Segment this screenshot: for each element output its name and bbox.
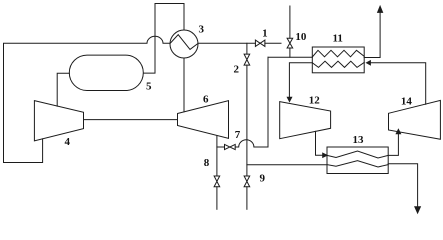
svg-text:6: 6 bbox=[203, 94, 209, 106]
svg-text:5: 5 bbox=[146, 80, 152, 92]
valve 10 bbox=[287, 38, 293, 48]
wire: circle 3 bottom to turbine 6 inlet bbox=[183, 58, 185, 112]
turbine 12 bbox=[280, 102, 331, 139]
svg-text:12: 12 bbox=[309, 94, 321, 106]
heat exchanger 13 bbox=[327, 147, 388, 174]
arrow into HX 13 bbox=[323, 153, 328, 157]
svg-text:1: 1 bbox=[262, 28, 268, 40]
tank 5 bbox=[69, 55, 143, 90]
svg-text:4: 4 bbox=[65, 136, 71, 148]
valve 9 bbox=[244, 176, 250, 187]
wire: branch to valve 7 bbox=[217, 146, 225, 148]
wire: HX 11 upper outlet to exhaust stack bbox=[364, 13, 380, 58]
wire: branch down to valve 2 bbox=[246, 43, 248, 54]
wire: condensate line from valve 9 tee to HX 13 lower inlet bbox=[247, 164, 327, 166]
heater 3 (circle with zigzag) bbox=[170, 30, 198, 58]
valve 2 bbox=[244, 54, 250, 65]
valve 1 bbox=[255, 40, 265, 46]
wire: turbine 12 outlet to HX 13 bbox=[316, 131, 323, 155]
wire: valve 2 down to valve 9 bbox=[246, 65, 248, 176]
svg-text:11: 11 bbox=[332, 32, 342, 44]
svg-text:10: 10 bbox=[295, 31, 307, 43]
svg-text:7: 7 bbox=[235, 129, 241, 141]
wire: HX 13 lower outlet to drain bbox=[388, 164, 417, 208]
wire: below valve 9 bbox=[246, 187, 248, 210]
turbine 6 bbox=[178, 101, 229, 139]
arrow left into HX 11 bbox=[367, 61, 371, 65]
turbine 14 bbox=[389, 100, 441, 139]
heat exchanger 11 bbox=[312, 47, 364, 73]
svg-text:13: 13 bbox=[353, 134, 365, 146]
wire: riser to HX 11 upper inlet bbox=[268, 56, 312, 58]
wire: HX 13 upper outlet up to turbine 14 bbox=[388, 134, 398, 155]
wire: tank 5 left port to turbine 4 inlet bbox=[57, 73, 69, 106]
svg-text:9: 9 bbox=[260, 172, 266, 184]
wire: HX 11 lower outlet to turbine 12 inlet bbox=[289, 63, 312, 98]
wire: below valve 8 bbox=[216, 187, 218, 210]
svg-text:3: 3 bbox=[198, 24, 204, 36]
wire: shaft between 4 and 6 bbox=[84, 119, 178, 121]
wire: turbine 14 top to HX 11 lower right bbox=[370, 63, 426, 104]
valve 8 bbox=[214, 176, 220, 187]
wire: circle 3 top loop to tank 5 right port bbox=[144, 4, 184, 74]
arrow up (exhaust) bbox=[378, 6, 383, 12]
wire: valve 10 supply stem bbox=[289, 6, 291, 38]
svg-text:2: 2 bbox=[234, 63, 240, 75]
turbine 4 bbox=[34, 101, 83, 141]
wire: stub after valve 1 bbox=[265, 42, 281, 44]
svg-text:14: 14 bbox=[401, 96, 413, 108]
arrow into turbine 12 bbox=[287, 97, 291, 101]
valve 7 bbox=[225, 144, 236, 149]
wire: heater 3 outlet to valve 1 bbox=[198, 42, 255, 44]
wire: left recirculation loop with hop over vertical line bbox=[4, 36, 171, 162]
svg-text:8: 8 bbox=[204, 157, 210, 169]
wire: turbine 6 outlet down to valve 8 bbox=[216, 136, 218, 177]
arrow down (drain) bbox=[415, 207, 421, 213]
arrow up into turbine 14 bbox=[396, 129, 400, 133]
wire: valve 7 to riser with hop over valve 9 line bbox=[235, 57, 268, 147]
wire: valve 10 to line 1 bbox=[289, 48, 291, 57]
